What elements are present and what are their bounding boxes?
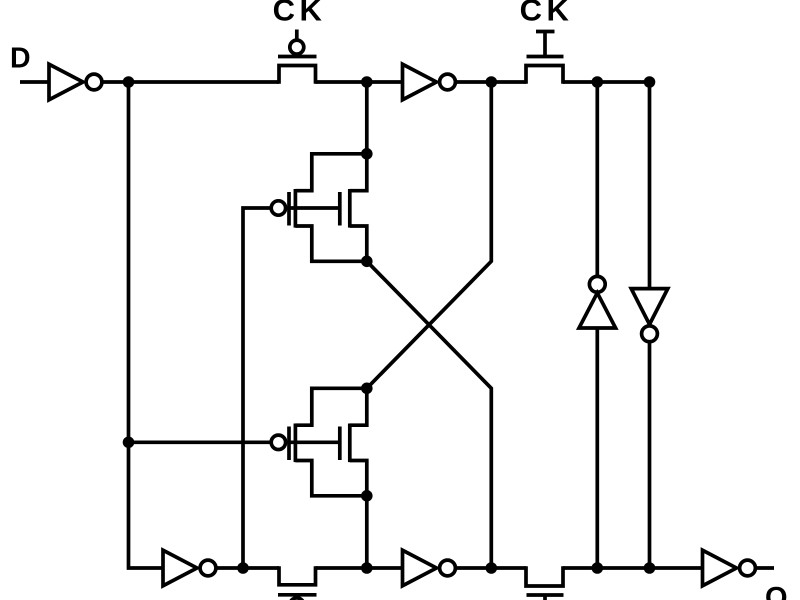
bubble: Q1p gate — [271, 201, 285, 215]
node n6 — [123, 437, 135, 449]
wire: latch2 gate line — [287, 440, 340, 444]
wire: D input — [20, 80, 49, 84]
wire: U4 output to M4 — [455, 566, 526, 570]
wire: U3 output — [216, 566, 279, 570]
wire: latch1 gate to bottom rail — [243, 208, 270, 568]
wire: cross diagonal A — [367, 261, 492, 568]
wire: U2 output to M2 — [455, 80, 526, 84]
latch2 keeper: top drain bar — [295, 388, 366, 425]
wire: M4 to output inverter — [563, 566, 703, 570]
transistor M2 (NMOS pass, top) — [526, 66, 563, 84]
wire: U1 output to M1 — [102, 80, 279, 84]
node n10 — [592, 562, 604, 574]
wire: Q output — [755, 566, 774, 570]
svg-text:CK: CK — [520, 0, 574, 28]
node n8 — [361, 562, 373, 574]
wire: right column 2 lower — [648, 342, 652, 568]
wire: right column 1 lower — [595, 328, 599, 568]
transistor Q1p gate — [287, 192, 291, 226]
inverter U6 (down) — [631, 289, 668, 325]
transistor Q2n gate — [338, 427, 342, 461]
wire: cross diagonal B — [367, 82, 492, 388]
transistor M3 (PMOS pass, bottom) — [279, 566, 316, 585]
node n2 — [361, 76, 373, 88]
inverter U5 (up) — [589, 276, 605, 292]
latch1 keeper: top drain bar — [295, 154, 366, 191]
transistor M1 (PMOS pass, top) — [279, 66, 316, 84]
wire: M2 to right column — [563, 80, 651, 84]
transistor Q1p channel — [294, 189, 298, 228]
node n4 — [592, 76, 604, 88]
inverter U3 — [163, 550, 197, 586]
transistor Q1n gate — [338, 192, 342, 226]
latch2 keeper: bottom drain bar — [295, 461, 366, 496]
node n1 — [123, 76, 135, 88]
inverter U1 — [49, 64, 83, 100]
wire: n2 down to latch1 — [365, 82, 369, 154]
node n5 — [644, 76, 656, 88]
inverter U7 — [703, 550, 737, 586]
node: latch2 bottom dot — [361, 490, 373, 502]
node: latch1 top dot — [361, 148, 373, 160]
wire: right column 1 upper — [595, 82, 599, 276]
transistor Q2n channel — [348, 424, 352, 463]
svg-text:Q: Q — [765, 582, 788, 600]
svg-text:CK: CK — [273, 0, 327, 28]
wire: M3 to U4 — [316, 566, 403, 570]
wire: right column 2 upper — [648, 82, 652, 289]
bubble: Q2p gate — [271, 435, 285, 449]
inverter U2 — [403, 64, 437, 100]
transistor Q2p channel — [294, 424, 298, 463]
node n11 — [644, 562, 656, 574]
node n9 — [486, 562, 498, 574]
wire: M1 to U2 — [316, 80, 403, 84]
node: latch2 top dot — [361, 383, 373, 395]
wire: latch1 gate line — [287, 206, 340, 210]
transistor Q2p gate — [287, 427, 291, 461]
svg-text:D: D — [10, 43, 31, 75]
wire: latch2 gate to n1 column — [129, 440, 270, 444]
wire: latch2 bottom to bottom rail — [365, 496, 369, 568]
node: latch1 bottom dot — [361, 255, 373, 267]
transistor Q1n channel — [348, 189, 352, 228]
inverter U4 — [403, 550, 437, 586]
node n3 — [486, 76, 498, 88]
wire: n1 down to bottom rail — [129, 82, 164, 568]
node n7 — [237, 562, 249, 574]
latch1 keeper: bottom drain bar — [295, 226, 366, 261]
transistor M4 (NMOS pass, bottom) — [526, 566, 563, 586]
